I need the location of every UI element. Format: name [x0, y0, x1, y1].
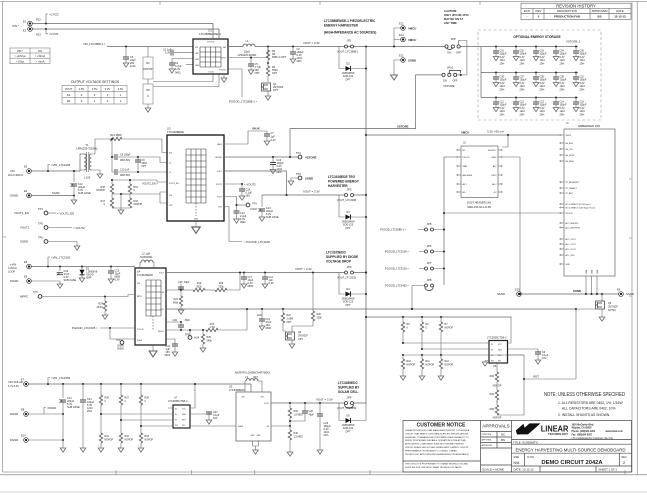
- svg-text:SUPPLIED BY DIODE: SUPPLIED BY DIODE: [326, 255, 358, 259]
- svg-text:VAUX: VAUX: [217, 143, 223, 146]
- resistor R26b: [215, 288, 227, 291]
- resistor R7: [439, 316, 453, 355]
- U3 pin grid: [186, 149, 206, 216]
- svg-text:APPROVED: APPROVED: [591, 9, 607, 13]
- capacitor C13: [533, 96, 547, 116]
- U6 VCC top stub: [508, 341, 512, 344]
- svg-text:Phone: (408)432-1900: Phone: (408)432-1900: [572, 430, 596, 433]
- ground: [267, 91, 269, 96]
- svg-text:GND: GND: [194, 219, 199, 221]
- wire E12/E14 to rail: [394, 28, 401, 47]
- svg-text:NO CONNECT (LTC6 Power): NO CONNECT (LTC6 Power): [566, 203, 591, 206]
- svg-text:GND: GND: [566, 264, 571, 266]
- svg-text:ACC_MNUP2P: ACC_MNUP2P: [566, 222, 580, 225]
- VOUT rail from U4: [166, 272, 366, 274]
- svg-text:1. ALL RESISTORS ARE 0402, 1%,: 1. ALL RESISTORS ARE 0402, 1%, 1/16W: [558, 401, 623, 405]
- resistor R13: [110, 137, 122, 140]
- capacitor C12: [513, 96, 527, 116]
- svg-text:0805: 0805: [248, 285, 254, 288]
- svg-text:33pF: 33pF: [184, 281, 190, 284]
- chip U6 box: [489, 341, 508, 364]
- svg-text:E8: E8: [21, 408, 25, 412]
- terminal E13: [497, 288, 521, 297]
- svg-text:VAUX: VAUX: [252, 127, 260, 131]
- svg-text:LINEAR TECHNOLOGY HAS MADE A B: LINEAR TECHNOLOGY HAS MADE A BEST EFFORT…: [405, 429, 470, 432]
- jumper JP4: [345, 396, 354, 409]
- terminal E14: [399, 33, 416, 42]
- svg-text:698K Ω OPT: 698K Ω OPT: [272, 56, 287, 59]
- svg-text:REVISION HISTORY: REVISION HISTORY: [556, 3, 596, 8]
- svg-text:VBAT: VBAT: [463, 165, 469, 168]
- svg-text:< VOUT2: < VOUT2: [73, 226, 85, 230]
- svg-text:PGOOD: PGOOD: [566, 213, 574, 215]
- ground: [290, 59, 296, 63]
- svg-text:PCB DES.: PCB DES.: [482, 434, 493, 436]
- svg-text:6.3V: 6.3V: [271, 139, 276, 142]
- U7 shdn wire to U5: [190, 425, 236, 427]
- svg-text:OUTPUT VOLTAGE SETTINGS: OUTPUT VOLTAGE SETTINGS: [71, 80, 120, 84]
- svg-text:BS: BS: [501, 438, 505, 442]
- svg-text:VSUPPLY: VSUPPLY: [488, 150, 497, 152]
- net flag VIN_LTC3459: [47, 383, 49, 385]
- resistor R1: [267, 47, 269, 51]
- U6 left pin stubs: [485, 343, 489, 361]
- svg-text:RT_MODE2X2Y: RT_MODE2X2Y: [566, 182, 581, 184]
- resistor R17: [111, 194, 113, 198]
- svg-text:<VIN_LTC3459: <VIN_LTC3459: [51, 376, 71, 380]
- wire TP7 to MPPC: [42, 295, 135, 297]
- wire U4 shdn loop: [110, 328, 122, 339]
- svg-text:TP3: TP3: [252, 202, 257, 206]
- wire C8 row to U3 C2 pin: [138, 157, 167, 163]
- svg-text:OPT: OPT: [345, 78, 351, 81]
- jumper JP7: [425, 261, 434, 270]
- J1 pin RT_MODE2X2Y: [560, 181, 580, 184]
- capacitor C03: [533, 45, 547, 65]
- U4 pin names: [137, 273, 165, 343]
- svg-text:CUSTOMER NOTICE: CUSTOMER NOTICE: [417, 423, 466, 429]
- svg-text:D5: D5: [346, 414, 350, 418]
- svg-text:(HIGH-IMPEDANCE AC SOURCES): (HIGH-IMPEDANCE AC SOURCES): [324, 31, 376, 35]
- U3 pin names: [169, 143, 223, 221]
- svg-text:PGOOD: PGOOD: [137, 329, 144, 331]
- ground: [391, 75, 398, 80]
- svg-text:THIS CIRCUIT IS PROPRIETARY TO: THIS CIRCUIT IS PROPRIETARY TO LINEAR TE…: [405, 463, 468, 466]
- J1 pin RT_SSMAC2: [560, 187, 577, 190]
- J1 bottom gnd pins: [586, 269, 599, 294]
- U6 pin names: [491, 344, 503, 363]
- terminal E8: [10, 408, 28, 417]
- main 3.3V rail: [330, 46, 446, 48]
- svg-text:< VOUT2_EN: < VOUT2_EN: [57, 212, 74, 216]
- svg-text:SHDN: SHDN: [137, 340, 143, 342]
- header J1 box: [564, 129, 615, 276]
- PGD pin wire: [224, 207, 242, 242]
- resistor R15 NOPOP: [111, 180, 113, 184]
- U6 RST wire: [508, 355, 525, 379]
- capacitor C07: [513, 71, 527, 91]
- svg-text:SGND: SGND: [10, 194, 18, 198]
- svg-text:362k: 362k: [196, 285, 202, 288]
- svg-text:LDO: LDO: [160, 309, 164, 311]
- svg-text:1.8V: 1.8V: [79, 87, 85, 91]
- svg-text:SW: SW: [223, 47, 226, 49]
- svg-text:AD 2: AD 2: [492, 183, 496, 186]
- J2 pin AN0/SHDN: [457, 174, 473, 177]
- svg-text:1630 McCarthy Blvd.: 1630 McCarthy Blvd.: [572, 423, 595, 426]
- VOUT bus horizontal: [366, 316, 512, 318]
- wire RST to Q3 column: [524, 309, 576, 379]
- capacitor C23: [59, 383, 80, 452]
- svg-text:NOTE: UNLESS OTHERWISE SPECIFI: NOTE: UNLESS OTHERWISE SPECIFIED: [544, 392, 625, 398]
- svg-text:3.3V: 3.3V: [105, 87, 111, 91]
- svg-text:U5: U5: [229, 385, 233, 389]
- svg-text:CIRCUIT BOARD LAYOUT MAY SIGNI: CIRCUIT BOARD LAYOUT MAY SIGNIFICANTLY A…: [405, 446, 469, 449]
- svg-text:3.3V, >50 mA: 3.3V, >50 mA: [487, 130, 504, 134]
- svg-text:ECO: ECO: [524, 9, 531, 13]
- svg-text:ANY TIME: ANY TIME: [444, 21, 457, 25]
- svg-text:ENERGY HARVESTING MULTI-SOURCE: ENERGY HARVESTING MULTI-SOURCE DEMOBOARD: [516, 447, 626, 453]
- coupling cap C8: [112, 139, 138, 162]
- svg-text:NOPOP: NOPOP: [134, 203, 143, 206]
- capacitor C11: [262, 271, 274, 288]
- svg-text:-: -: [527, 15, 528, 19]
- node R1/R4: [267, 62, 269, 64]
- svg-text:SIZE: SIZE: [514, 456, 520, 459]
- jumper JP5: [425, 222, 434, 231]
- svg-text:VS1: VS1: [169, 195, 172, 197]
- svg-text:ALL CAPACITORS ARE 0402, 10%: ALL CAPACITORS ARE 0402, 10%: [562, 407, 615, 411]
- svg-text:PGOOD_LTC3105 <: PGOOD_LTC3105 <: [72, 326, 98, 330]
- svg-text:VSTORE: VSTORE: [397, 124, 409, 128]
- inductor L2: [140, 252, 154, 269]
- node VOUT: [267, 45, 269, 47]
- resistor R33 NOPOP: [138, 430, 153, 452]
- svg-text:33pF: 33pF: [185, 319, 191, 322]
- J1 pin VMCU: [560, 134, 572, 137]
- svg-text:OPT: OPT: [142, 165, 147, 168]
- wire JP10 to VSTORE net: [290, 75, 442, 157]
- T1 secondary bottom to gnd: [95, 170, 100, 174]
- wire R8 to gnd: [147, 104, 149, 108]
- svg-text:GND: GND: [498, 350, 503, 352]
- svg-text:OPT: OPT: [345, 227, 351, 230]
- svg-text:SMP: SMP: [86, 277, 92, 280]
- svg-text:CIRCUIT THAT MEETS CUSTOMER-SU: CIRCUIT THAT MEETS CUSTOMER-SUPPLIED SPE…: [405, 432, 469, 435]
- wire L1 to VOUT rail: [255, 46, 330, 48]
- svg-text:0603: 0603: [175, 72, 181, 75]
- transistor Q1: [267, 76, 269, 82]
- resistor R22: [281, 308, 293, 331]
- node flag: [47, 170, 49, 172]
- capacitor C12: [70, 171, 91, 204]
- svg-text:SOLAR CELL: SOLAR CELL: [338, 390, 358, 394]
- VLDO pin wire: [224, 197, 237, 212]
- svg-text:Milpitas, CA 95035: Milpitas, CA 95035: [572, 427, 593, 430]
- label DGND: [44, 408, 46, 415]
- capacitor C26: [317, 402, 331, 454]
- diode D3 bypass: [339, 195, 366, 217]
- svg-text:LDO: LDO: [257, 313, 262, 317]
- header J2 box: [461, 146, 498, 198]
- svg-text:SUB CASE: SUB CASE: [64, 279, 77, 282]
- capacitor C02: [513, 45, 527, 65]
- U7 pin names: [175, 409, 187, 428]
- svg-text:20%: 20%: [297, 60, 303, 63]
- svg-text:OPT: OPT: [345, 430, 351, 433]
- svg-text:E9: E9: [617, 288, 621, 292]
- svg-text:TP2: TP2: [296, 172, 301, 176]
- wire bus to U6 VCC: [510, 317, 512, 341]
- U4 gnd stub: [152, 345, 154, 351]
- svg-text:S2: S2: [491, 344, 493, 346]
- svg-text:R35: R35: [490, 393, 495, 396]
- svg-text:VOUT2: VOUT2: [20, 226, 30, 230]
- svg-text:DUST HEADER 2X6: DUST HEADER 2X6: [467, 201, 491, 205]
- transistor Q2: [283, 326, 309, 348]
- svg-text:C1: C1: [169, 172, 171, 174]
- capacitor C28: [239, 183, 252, 200]
- R36 bottom loop: [497, 379, 524, 415]
- svg-text:16V: 16V: [542, 357, 547, 360]
- capacitor C27: [206, 411, 220, 424]
- svg-text:MPPC: MPPC: [137, 296, 143, 298]
- node C3: [125, 45, 127, 47]
- svg-text:PGOOD_LTC3105 >: PGOOD_LTC3105 >: [385, 267, 409, 271]
- terminal E3: [8, 165, 31, 178]
- svg-text:LTC3105EDD: LTC3105EDD: [326, 251, 346, 255]
- J1 pin EH_ACK: [560, 142, 574, 145]
- wire to C PZ1 flag: [46, 29, 48, 34]
- svg-text:EH_MISO: EH_MISO: [566, 161, 575, 163]
- capacitor C4: [172, 59, 193, 64]
- svg-text:LTC3108EDE: LTC3108EDE: [167, 130, 184, 134]
- wire JP5: [418, 229, 444, 231]
- test point TP6: [20, 236, 80, 251]
- svg-text:<C PZ1: <C PZ1: [49, 32, 59, 36]
- svg-text:POWERED ENERGY: POWERED ENERGY: [328, 180, 360, 184]
- ground: [169, 69, 175, 73]
- svg-text:R34: R34: [490, 375, 495, 378]
- J1 pin EH_CLK: [560, 148, 574, 151]
- storage bus row 1: [481, 46, 578, 48]
- U7 right wires: [190, 412, 209, 414]
- svg-text:NOPOP: NOPOP: [143, 68, 152, 71]
- wire R23 to LDO node: [218, 309, 247, 330]
- test point TP5: [20, 222, 85, 231]
- wire VIN to U1: [107, 46, 193, 48]
- svg-text:OFF: OFF: [453, 80, 458, 83]
- svg-text:OPT: OPT: [287, 321, 292, 324]
- wire JP8 loop: [412, 286, 425, 310]
- cap C9: [135, 157, 147, 172]
- svg-text:0603 50V: 0603 50V: [120, 174, 131, 177]
- lower select bus: [403, 354, 524, 356]
- svg-text:VMCU: VMCU: [408, 27, 416, 31]
- svg-text:VIN *: VIN *: [12, 24, 20, 28]
- J1 pin GND: [560, 263, 571, 266]
- J2 pin NC: [457, 149, 466, 152]
- svg-text:BS: BS: [597, 15, 601, 19]
- svg-text:SUPPLIED BY: SUPPLIED BY: [338, 386, 360, 390]
- svg-text:IC NO.: IC NO.: [527, 456, 535, 459]
- J2 pin AD 1: [457, 183, 467, 186]
- wire JP6: [419, 251, 444, 253]
- svg-text:VOUT_LTC3588-1: VOUT_LTC3588-1: [337, 50, 359, 54]
- chip U3 box: [167, 135, 224, 221]
- svg-text:TECHNOLOGY: TECHNOLOGY: [548, 432, 568, 436]
- svg-text:VOUT = 3.3V: VOUT = 3.3V: [303, 190, 320, 194]
- svg-text:HOWEVER, IT REMAINS THE CUSTOM: HOWEVER, IT REMAINS THE CUSTOMER'S RESPO…: [405, 436, 469, 439]
- svg-text:SGND: SGND: [573, 289, 581, 293]
- svg-text:OPT: OPT: [255, 72, 261, 75]
- J1 pin NO CONNECT (3.3V Super Power): [560, 207, 596, 210]
- test point TP7: [20, 290, 42, 299]
- svg-text:VLDO: VLDO: [217, 197, 222, 199]
- svg-text:ACC_SELFTEST: ACC_SELFTEST: [566, 227, 581, 230]
- capacitor C1: [174, 52, 180, 54]
- capacitor C20: [166, 319, 190, 330]
- capacitor C15: [108, 265, 121, 283]
- sgnd bus: [521, 293, 618, 295]
- resistor R4: [267, 60, 269, 66]
- svg-text:S0: S0: [491, 355, 493, 357]
- JP9 off wire: [459, 41, 467, 75]
- svg-text:SGND: SGND: [305, 177, 313, 181]
- wire E4: [32, 195, 75, 197]
- svg-text:SHDN: SHDN: [238, 426, 244, 428]
- svg-text:DEMO CIRCUIT 2042A: DEMO CIRCUIT 2042A: [541, 460, 603, 466]
- note text: [544, 392, 625, 417]
- wire R2 to R8: [147, 79, 149, 84]
- svg-text:VSTORE_1: VSTORE_1: [566, 40, 581, 44]
- svg-text:LTC Confidential For Customer: LTC Confidential For Customer Use Only: [572, 437, 615, 440]
- svg-text:16V: 16V: [213, 417, 218, 420]
- svg-text:VOUT2_EN >: VOUT2_EN >: [142, 182, 158, 186]
- svg-text:U6: U6: [493, 364, 497, 368]
- svg-text:< VOUT2: < VOUT2: [244, 183, 256, 187]
- node piezo bottom: [45, 28, 47, 30]
- TP2 ground: [291, 178, 298, 181]
- svg-text:TP1: TP1: [296, 151, 301, 155]
- jumper JP6: [425, 244, 434, 253]
- svg-text:VOUT2_EN: VOUT2_EN: [169, 183, 179, 185]
- svg-text:NOPOP: NOPOP: [125, 438, 134, 441]
- capacitor C11: [493, 96, 507, 116]
- wire C10 to U3 C1 pin: [138, 171, 167, 173]
- J1 pin PGOOD: [560, 212, 574, 215]
- svg-text:APP ENG.: APP ENG.: [482, 439, 493, 442]
- test point TP9: [116, 339, 135, 350]
- svg-text:TP7: TP7: [33, 290, 38, 294]
- svg-text:<VIN_LTC3105: <VIN_LTC3105: [51, 256, 71, 260]
- svg-text:20%: 20%: [324, 434, 330, 437]
- resistor R26: [99, 383, 109, 430]
- svg-text:APPROVE: APPROVE: [482, 444, 493, 447]
- wire piezo bottom: [33, 28, 220, 30]
- svg-text:SGND: SGND: [20, 240, 28, 244]
- linear technology logo: [516, 423, 569, 436]
- svg-text:C10 1nF: C10 1nF: [120, 169, 130, 172]
- svg-text:LTC3588EMSE-1 PIEZOELECTRIC: LTC3588EMSE-1 PIEZOELECTRIC: [324, 19, 376, 23]
- wire VIN2 pin: [186, 64, 193, 66]
- svg-text:S1: S1: [175, 414, 177, 416]
- svg-text:D3: D3: [346, 210, 350, 214]
- svg-text:VMCU: VMCU: [461, 131, 469, 135]
- J2 pin VBAT: [457, 165, 469, 168]
- svg-text:OFF: OFF: [456, 52, 461, 55]
- svg-text:VOUT_LTC3108: VOUT_LTC3108: [337, 198, 357, 202]
- svg-text:APPLICATION. COMPONENT SUBSTIT: APPLICATION. COMPONENT SUBSTITUTION AND …: [405, 443, 464, 446]
- svg-text:LTC3108EDE TEG: LTC3108EDE TEG: [328, 175, 356, 179]
- storage bus row 2: [481, 72, 578, 74]
- resistor R2 NOPOP: [147, 47, 149, 58]
- U7 VCC wire to bus: [190, 384, 195, 408]
- select wires to U7: [101, 414, 168, 426]
- svg-text:JP2: JP2: [347, 188, 352, 192]
- svg-text:MPPC: MPPC: [20, 295, 28, 299]
- diode D1: [79, 265, 98, 282]
- terminal E14b: [10, 434, 28, 443]
- svg-text:40.2K: 40.2K: [96, 306, 103, 309]
- wire R6 to U6: [422, 348, 489, 350]
- svg-text:JP5: JP5: [427, 222, 432, 226]
- svg-text:DGND: DGND: [10, 412, 18, 416]
- svg-text:ENERGY HARVESTER: ENERGY HARVESTER: [324, 24, 359, 28]
- svg-text:6.3V: 6.3V: [115, 279, 120, 282]
- svg-text:N/A: N/A: [514, 461, 520, 465]
- svg-text:OPT: OPT: [273, 89, 279, 92]
- svg-text:VSTORE: VSTORE: [305, 156, 317, 160]
- svg-text:C20: C20: [173, 319, 178, 322]
- svg-text:GND: GND: [597, 269, 599, 274]
- svg-text:DATE: 12-12-12: DATE: 12-12-12: [514, 467, 534, 471]
- wire piezo drop 1: [212, 24, 214, 40]
- svg-text:> +10V/µs: > +10V/µs: [14, 55, 26, 58]
- svg-text:S2: S2: [175, 409, 177, 411]
- svg-text:D1 D0: D1 D0: [208, 72, 213, 74]
- VSTORE wire: [224, 156, 298, 158]
- svg-text:VOUT_LTC3459: VOUT_LTC3459: [337, 406, 357, 410]
- svg-text:HARVESTER: HARVESTER: [328, 184, 348, 188]
- svg-text:E2: E2: [23, 29, 27, 33]
- diode D5 bypass: [339, 403, 366, 421]
- svg-text:E1: E1: [23, 20, 27, 24]
- wire PGOOD to J2: [444, 156, 457, 158]
- svg-text:20%: 20%: [277, 171, 283, 174]
- U6 gnd: [484, 361, 486, 363]
- capacitor C04: [553, 45, 567, 65]
- wire E11 to gnd: [394, 60, 401, 75]
- svg-text:DGND: DGND: [10, 279, 18, 283]
- svg-text:<C PZ2: <C PZ2: [49, 13, 59, 17]
- capacitor C14: [234, 211, 247, 224]
- svg-text:E13: E13: [515, 288, 520, 292]
- svg-text:ON: ON: [443, 80, 447, 83]
- label C3 values: [130, 56, 136, 68]
- svg-text:VSTORE: VSTORE: [215, 157, 223, 159]
- capacitor C18: [57, 265, 77, 288]
- capacitor C24: [80, 383, 95, 452]
- terminal E9: [617, 288, 634, 297]
- svg-text:PGOOD_LTC3108 >: PGOOD_LTC3108 >: [385, 250, 409, 254]
- resistor R29: [288, 402, 303, 426]
- svg-text:DESCRIPTION: DESCRIPTION: [557, 9, 577, 13]
- wire FBLDO row: [166, 329, 206, 331]
- wire R26 to rail: [227, 273, 240, 291]
- svg-text:LTC3459EDC: LTC3459EDC: [229, 388, 245, 392]
- J2 pin A2+: [457, 191, 467, 194]
